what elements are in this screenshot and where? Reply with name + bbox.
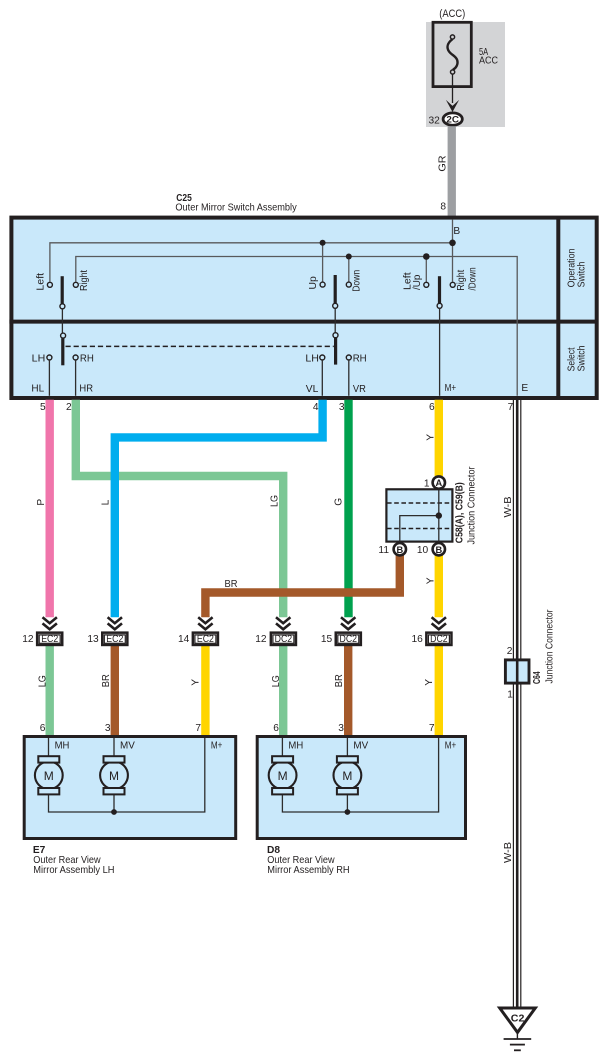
- svg-text:LG: LG: [38, 675, 49, 687]
- svg-text:ACC: ACC: [479, 56, 498, 67]
- svg-text:M+: M+: [445, 741, 457, 752]
- svg-text:A: A: [435, 478, 442, 488]
- svg-text:3: 3: [338, 723, 344, 734]
- svg-text:EC2: EC2: [41, 634, 58, 645]
- svg-text:W-B: W-B: [503, 842, 514, 863]
- svg-text:2C: 2C: [446, 115, 459, 125]
- svg-text:Junction Connector: Junction Connector: [466, 466, 477, 545]
- svg-text:BR: BR: [101, 674, 112, 687]
- svg-text:Down: Down: [352, 270, 363, 292]
- svg-text:Switch: Switch: [576, 345, 587, 371]
- svg-text:B: B: [435, 545, 442, 555]
- svg-text:Y: Y: [424, 679, 435, 686]
- svg-text:VR: VR: [353, 384, 366, 395]
- svg-text:MV: MV: [120, 741, 135, 752]
- svg-text:Y: Y: [425, 577, 436, 584]
- svg-text:6: 6: [40, 723, 46, 734]
- svg-text:10: 10: [417, 545, 429, 556]
- svg-text:B: B: [453, 226, 460, 237]
- svg-text:M: M: [342, 769, 352, 783]
- svg-text:DC2: DC2: [430, 634, 448, 645]
- svg-text:M+: M+: [445, 383, 457, 394]
- svg-text:5: 5: [40, 402, 46, 413]
- svg-text:B: B: [396, 545, 403, 555]
- svg-text:GR: GR: [437, 155, 448, 171]
- svg-text:LG: LG: [271, 675, 282, 687]
- svg-text:6: 6: [429, 402, 435, 413]
- svg-text:M: M: [44, 769, 54, 783]
- svg-text:RH: RH: [353, 353, 367, 364]
- svg-text:P: P: [36, 499, 47, 506]
- svg-text:L: L: [101, 499, 112, 505]
- svg-text:12: 12: [255, 634, 267, 645]
- svg-text:7: 7: [508, 402, 514, 413]
- svg-text:EC2: EC2: [197, 634, 214, 645]
- svg-text:C2: C2: [511, 1014, 525, 1025]
- svg-text:RH: RH: [80, 353, 94, 364]
- svg-text:DC2: DC2: [275, 634, 293, 645]
- svg-text:2: 2: [507, 646, 513, 657]
- svg-text:(ACC): (ACC): [439, 8, 465, 20]
- svg-text:VL: VL: [306, 384, 319, 395]
- svg-text:HR: HR: [79, 384, 93, 395]
- svg-text:12: 12: [22, 634, 34, 645]
- svg-text:MV: MV: [353, 741, 368, 752]
- svg-text:Left: Left: [36, 273, 47, 291]
- svg-text:/Up: /Up: [412, 274, 423, 290]
- svg-text:4: 4: [313, 402, 319, 413]
- svg-text:LG: LG: [269, 495, 280, 507]
- svg-text:3: 3: [105, 723, 111, 734]
- svg-text:2: 2: [66, 402, 72, 413]
- svg-text:Right: Right: [456, 270, 467, 291]
- svg-text:EC2: EC2: [106, 634, 123, 645]
- svg-text:1: 1: [424, 479, 430, 490]
- svg-text:6: 6: [273, 723, 279, 734]
- svg-text:M+: M+: [211, 741, 223, 752]
- svg-text:Outer Mirror Switch Assembly: Outer Mirror Switch Assembly: [175, 203, 297, 214]
- svg-text:E: E: [521, 383, 528, 394]
- svg-text:7: 7: [195, 723, 201, 734]
- svg-text:8: 8: [440, 201, 446, 212]
- svg-text:Right: Right: [79, 270, 90, 291]
- svg-text:DC2: DC2: [340, 634, 358, 645]
- svg-text:MH: MH: [55, 741, 70, 752]
- svg-text:G: G: [334, 498, 345, 506]
- svg-text:Y: Y: [191, 679, 202, 686]
- svg-text:Y: Y: [425, 434, 436, 441]
- svg-text:/Down: /Down: [467, 267, 478, 290]
- svg-text:BR: BR: [225, 579, 238, 590]
- svg-text:C64: C64: [532, 671, 543, 684]
- svg-text:M: M: [278, 769, 288, 783]
- svg-text:3: 3: [339, 402, 345, 413]
- svg-text:14: 14: [178, 634, 190, 645]
- svg-text:1: 1: [507, 690, 513, 701]
- svg-text:M: M: [109, 769, 119, 783]
- svg-text:13: 13: [87, 634, 99, 645]
- svg-text:16: 16: [411, 634, 423, 645]
- svg-text:LH: LH: [305, 353, 319, 364]
- svg-text:HL: HL: [31, 384, 44, 395]
- svg-text:Switch: Switch: [576, 262, 587, 288]
- svg-text:7: 7: [429, 723, 435, 734]
- svg-text:C58(A), C59(B): C58(A), C59(B): [455, 482, 466, 543]
- svg-text:32: 32: [428, 115, 440, 126]
- svg-text:W-B: W-B: [503, 496, 514, 517]
- svg-text:Up: Up: [308, 276, 319, 290]
- svg-text:Junction Connector: Junction Connector: [544, 609, 555, 684]
- svg-text:Mirror Assembly LH: Mirror Assembly LH: [33, 865, 114, 876]
- svg-text:MH: MH: [288, 741, 303, 752]
- svg-text:11: 11: [378, 545, 389, 556]
- svg-text:BR: BR: [334, 674, 345, 687]
- svg-text:Mirror Assembly RH: Mirror Assembly RH: [267, 865, 349, 876]
- svg-text:15: 15: [321, 634, 333, 645]
- svg-text:LH: LH: [32, 353, 46, 364]
